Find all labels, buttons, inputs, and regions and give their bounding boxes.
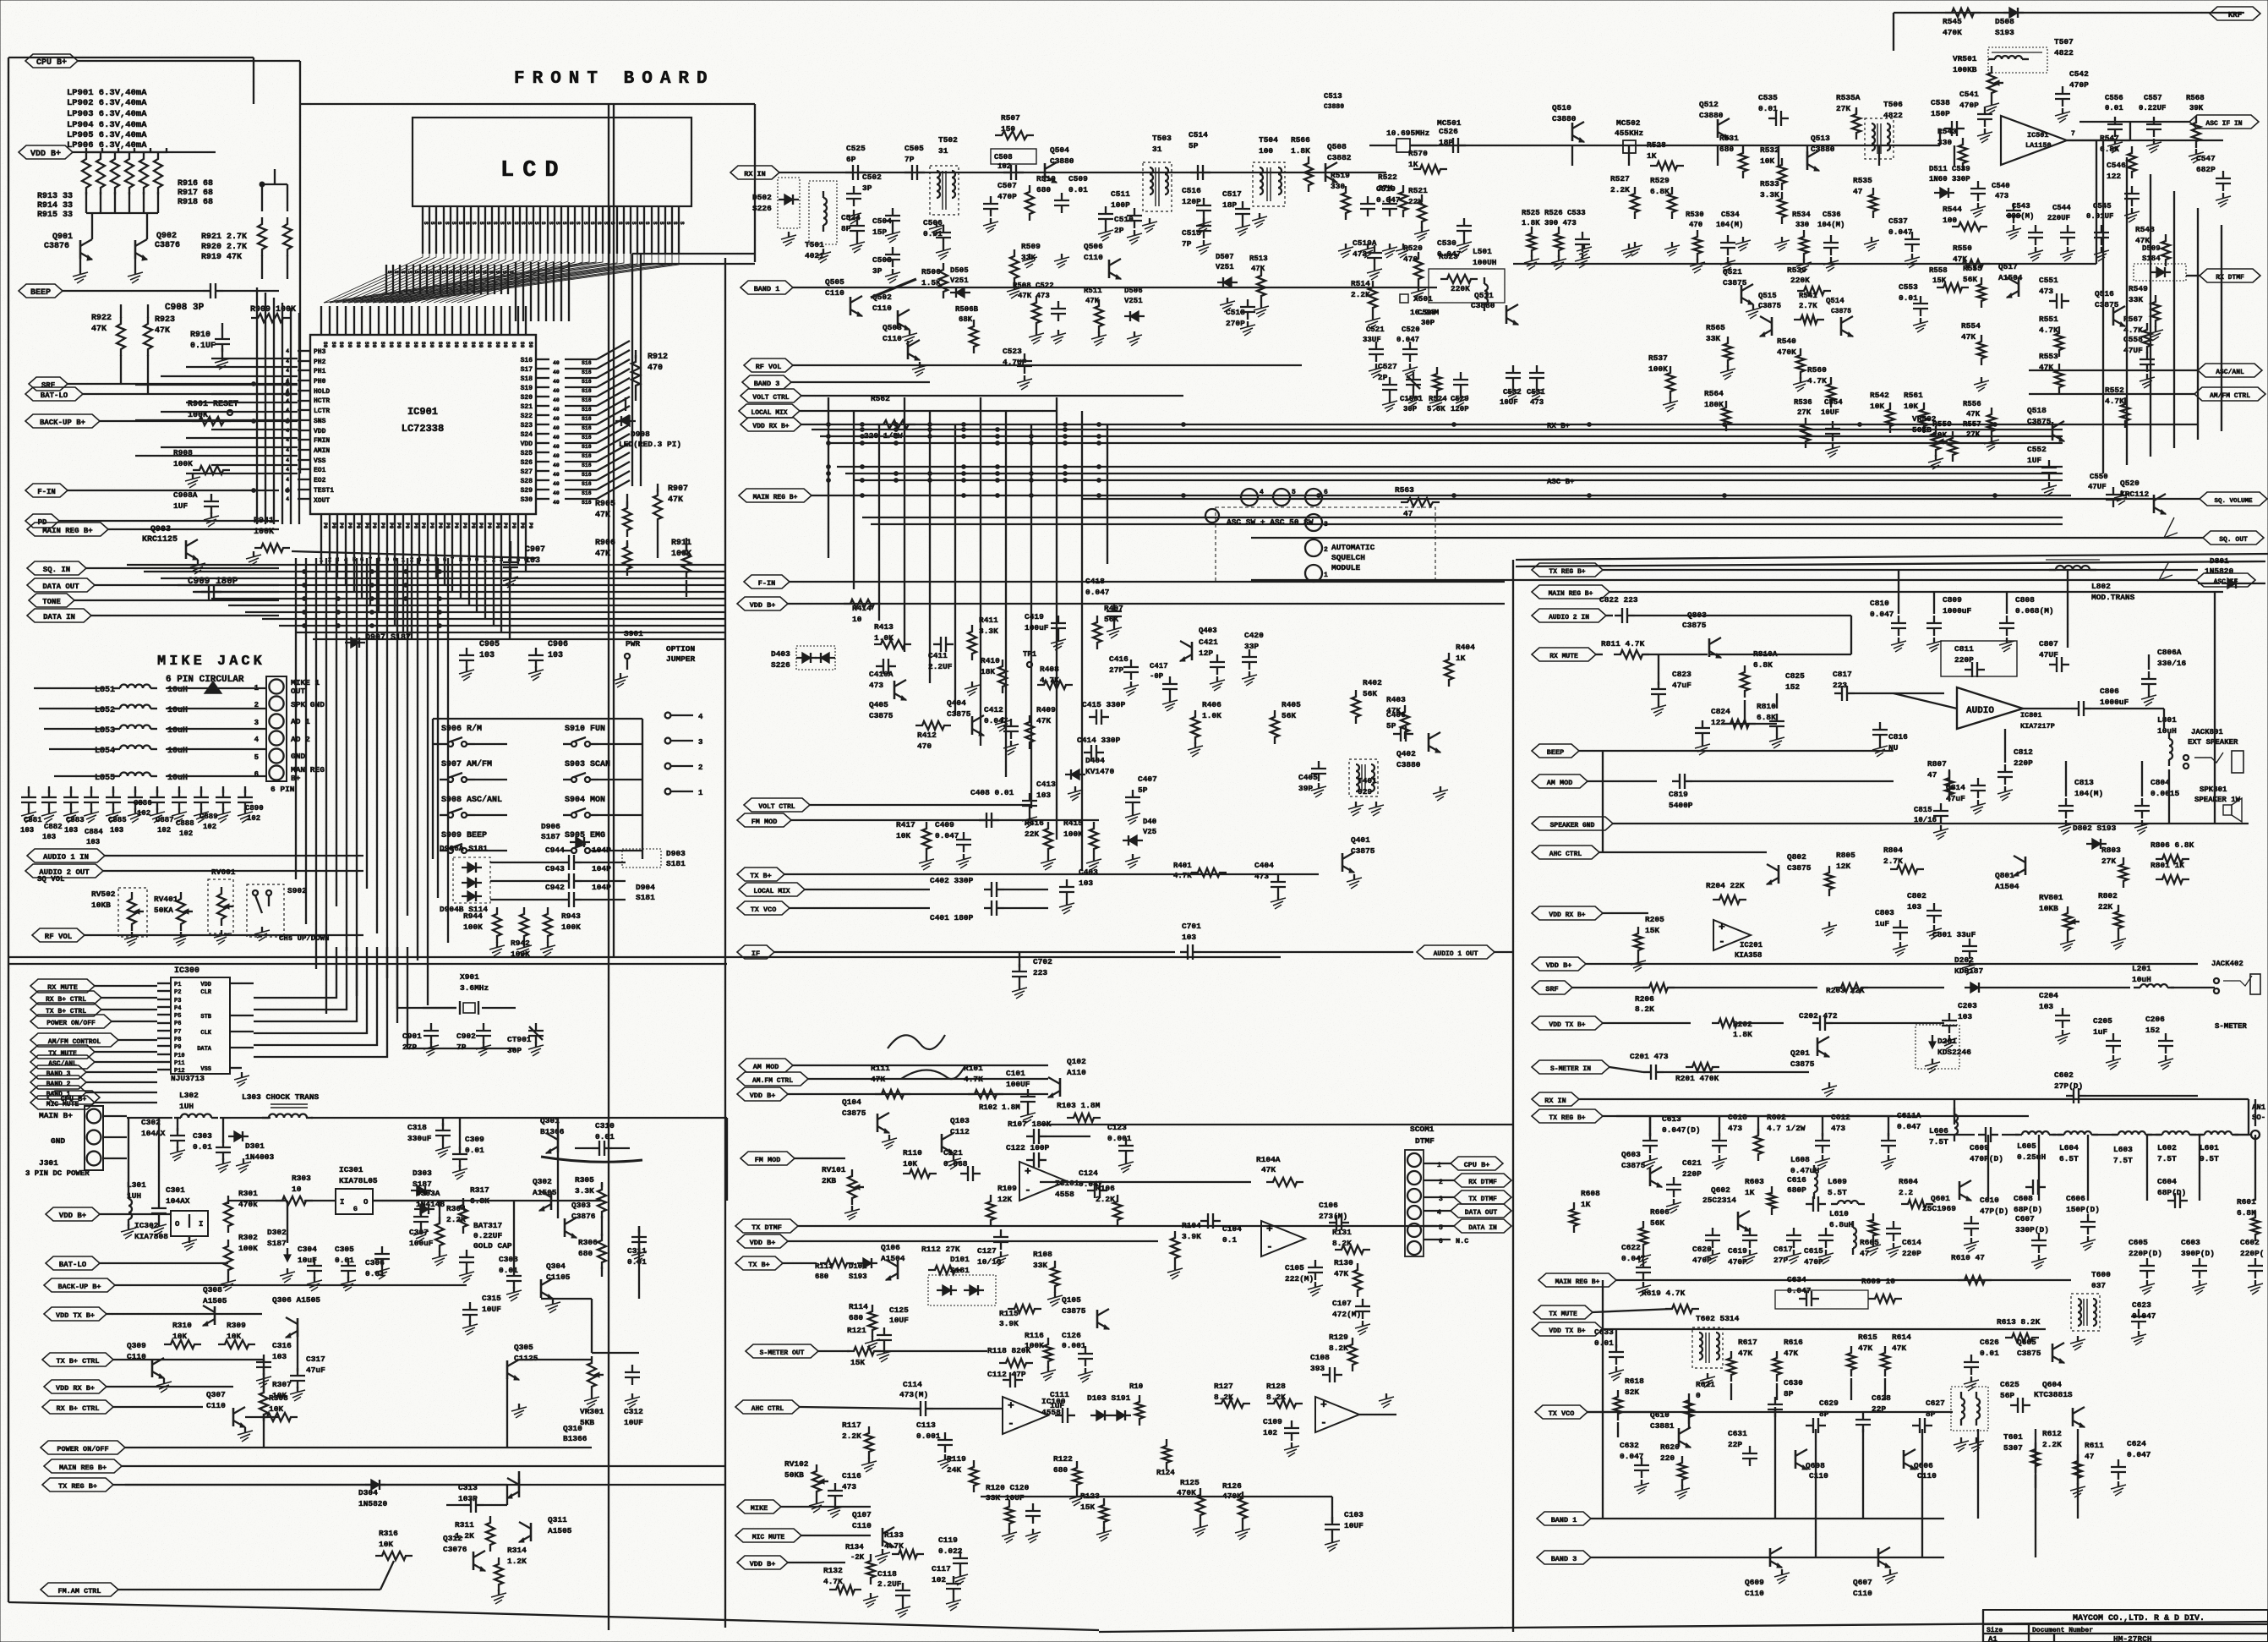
svg-text:103: 103 [1907,902,1921,911]
svg-text:0.01: 0.01 [1068,185,1088,194]
svg-text:0.047: 0.047 [1870,610,1894,619]
svg-text:C520: C520 [1402,326,1420,334]
wire front board right border [609,104,614,1630]
capacitor C521 C520 [1363,326,1420,378]
svg-text:R920 2.7K: R920 2.7K [201,243,247,252]
svg-text:RV401: RV401 [154,895,178,904]
svg-text:C901: C901 [402,1032,422,1041]
wire top frame line [300,61,755,473]
capacitor C550 [2088,473,2129,507]
node VDD B+ flag mid [737,597,1505,610]
svg-text:S: S [596,222,602,225]
svg-text:P11: P11 [174,1060,185,1067]
svg-text:2: 2 [1324,546,1328,554]
resistor R621 [1685,1380,1715,1424]
capacitor C123 [1107,1123,1134,1173]
op-amp IC102B [1315,1393,1396,1432]
diode D506 [1124,287,1145,346]
capacitor C306 [365,1246,390,1279]
capacitor C114 [899,1380,1003,1416]
svg-text:1UF: 1UF [173,501,188,511]
svg-text:P0: P0 [363,523,369,529]
node POWER ON/OFF flag power [41,1441,592,1454]
svg-text:HCTR: HCTR [314,397,330,405]
svg-text:D907 S187: D907 S187 [365,633,411,643]
diode D906 [541,822,590,847]
svg-text:R126: R126 [1222,1481,1242,1491]
transistor Q302 [533,1177,557,1211]
svg-text:R561: R561 [1904,391,1923,400]
svg-text:3.3K: 3.3K [1760,190,1779,200]
svg-text:R116: R116 [1025,1331,1044,1340]
svg-text:15K: 15K [1080,1502,1095,1512]
svg-text:P0: P0 [413,523,418,529]
svg-text:Q604: Q604 [2042,1380,2062,1389]
svg-text:C517: C517 [1222,189,1242,199]
svg-text:R545: R545 [1943,17,1962,26]
resistor R601 [2237,1197,2260,1241]
svg-text:Q510: Q510 [1552,103,1571,112]
capacitor C908 [165,283,279,313]
node RX MUTE flag rb [1532,648,1603,661]
svg-text:Q521: Q521 [1723,267,1742,276]
potentiometer VR501 [1953,54,2003,114]
svg-text:C906: C906 [548,640,568,649]
svg-text:OPTION: OPTION [666,644,696,654]
svg-text:S16: S16 [521,357,533,364]
svg-text:FMIN: FMIN [314,437,330,445]
node AUDIO 1 OUT flag [1417,945,1513,959]
resistor R559 [1932,419,1957,462]
svg-text:220P(D): 220P(D) [2129,1249,2162,1258]
svg-text:VR501: VR501 [1953,54,1977,63]
svg-text:KRC1125: KRC1125 [142,535,178,545]
capacitor C519 [1376,184,1401,205]
svg-text:102: 102 [932,1575,946,1585]
svg-text:C104: C104 [1222,1224,1242,1234]
svg-text:P0: P0 [437,523,443,529]
svg-text:S26: S26 [521,459,533,467]
wire top right rail [1894,13,2244,51]
potentiometer RV401 [154,892,193,946]
transistor Q304 [541,1262,571,1313]
switch S906 R/M [440,724,482,747]
svg-text:VDD B+: VDD B+ [750,601,776,610]
resistor R806 [2151,840,2194,863]
resistor R417 [896,820,934,870]
svg-text:Q104: Q104 [842,1097,861,1107]
svg-text:C806: C806 [2100,687,2119,696]
capacitor C421 [1199,638,1225,691]
svg-text:S0: S0 [338,342,344,348]
svg-text:C110: C110 [883,334,902,343]
svg-text:0: 0 [1696,1391,1701,1400]
svg-text:D201: D201 [1937,1037,1957,1046]
svg-text:S: S [492,222,498,225]
diode D906A [440,844,490,903]
svg-text:L603: L603 [2113,1145,2133,1154]
svg-text:104(M): 104(M) [1716,221,1743,229]
svg-text:S: S [436,222,442,225]
svg-text:C887: C887 [156,816,174,824]
svg-text:C3875: C3875 [1621,1161,1646,1170]
node DATA OUT flag scom [1424,1204,1511,1218]
svg-text:P0: P0 [486,523,492,529]
transistor Q106 [881,1243,905,1280]
svg-text:10uH: 10uH [2132,975,2151,984]
svg-text:40: 40 [553,472,560,478]
resistor R305 [575,1175,606,1226]
capacitor C603r [2181,1238,2215,1294]
resistor R942 [511,939,530,959]
svg-text:27K: 27K [1836,104,1850,113]
svg-text:C418: C418 [1085,577,1105,586]
svg-text:C631: C631 [1728,1429,1747,1438]
svg-text:L852: L852 [95,706,115,715]
svg-text:C609: C609 [1970,1143,1989,1152]
svg-text:BEEP: BEEP [30,288,51,298]
svg-text:C889: C889 [199,813,218,821]
svg-text:103: 103 [1182,933,1196,942]
wire mid-bottom rails [981,1125,1513,1497]
svg-text:S: S [434,271,440,274]
resistor R514 [1351,279,1380,329]
resistor R570 [1408,149,1447,173]
label IC901 top pin names [322,342,533,348]
capacitor C416 [1109,654,1139,696]
capacitor C310 [575,1121,630,1156]
resistor R402 [1352,678,1382,724]
capacitor C413 [1022,780,1056,828]
svg-text:VDD B+: VDD B+ [1546,961,1572,970]
capacitor C804 [2134,778,2180,835]
svg-text:R206: R206 [1635,994,1654,1004]
capacitor C317 [290,1355,325,1401]
svg-text:7P: 7P [1182,239,1192,249]
svg-text:P0: P0 [527,523,533,529]
wire option pins [665,713,703,797]
resistor R555 [1963,264,1986,308]
resistor R311 [455,1516,495,1552]
svg-text:103: 103 [548,651,563,660]
svg-text:RX IN: RX IN [1544,1097,1566,1105]
node BACK-UP B+ flag [25,414,298,428]
svg-text:2P: 2P [1114,226,1124,235]
svg-text:C3076: C3076 [443,1545,467,1554]
capacitor C543 C544 C545 [2007,202,2113,261]
svg-text:SNS: SNS [314,418,326,425]
svg-text:C117: C117 [932,1564,951,1574]
capacitor C419 [1025,612,1066,650]
svg-text:Q402: Q402 [1396,749,1416,758]
svg-text:RV102: RV102 [784,1459,809,1469]
svg-text:473: 473 [1530,398,1544,407]
svg-text:50KA: 50KA [154,906,173,915]
svg-text:R122: R122 [1053,1454,1073,1464]
resistor R566 [1291,135,1313,192]
svg-text:R614: R614 [1892,1333,1911,1342]
capacitor C819 [1669,774,1894,810]
svg-text:R303: R303 [292,1174,311,1183]
svg-text:6: 6 [254,770,259,779]
svg-text:C125: C125 [889,1305,909,1315]
node S-METER IN flag rb [1532,1060,1643,1074]
svg-text:47K: 47K [1085,297,1100,305]
svg-text:Q603: Q603 [1621,1150,1641,1159]
svg-text:104P: 104P [592,846,611,855]
svg-text:104AX: 104AX [141,1129,166,1138]
svg-text:HM-27RCH: HM-27RCH [2113,1634,2152,1642]
svg-text:R905: R905 [595,500,615,509]
node TX B+ CTRL flag power [42,1353,149,1366]
svg-text:S: S [400,271,406,274]
svg-text:R408: R408 [1040,665,1059,674]
svg-text:3.3K: 3.3K [575,1186,594,1196]
svg-text:R608: R608 [1581,1189,1600,1198]
capacitor C406 [1386,710,1413,742]
resistor R106 [1096,1184,1122,1227]
svg-text:P10: P10 [174,1053,185,1059]
wire middle column left border [724,258,726,1628]
svg-text:Q605: Q605 [2017,1338,2036,1347]
svg-text:103P: 103P [458,1494,478,1503]
svg-text:C618: C618 [1728,1113,1747,1122]
svg-text:C3876: C3876 [44,242,69,251]
capacitor C629 [1806,1398,1839,1433]
svg-text:S907 AM/FM: S907 AM/FM [441,759,492,769]
svg-text:C502: C502 [862,172,882,182]
svg-text:C111: C111 [1050,1390,1069,1399]
svg-text:S: S [527,222,533,225]
crystal X501 [1400,294,1440,317]
svg-text:KIA7808: KIA7808 [134,1232,168,1241]
resistor R203 [1826,983,1944,995]
resistor R542 [1870,391,1894,433]
svg-text:C127: C127 [977,1246,997,1256]
svg-text:I: I [340,1198,344,1207]
svg-text:S: S [386,271,392,274]
svg-text:KDS187: KDS187 [1954,966,1984,976]
svg-text:P5: P5 [174,1013,181,1020]
svg-text:S0: S0 [363,342,369,348]
wire IC901 bottom pin comb [292,514,536,558]
svg-text:1uF: 1uF [1875,919,1889,928]
svg-text:S: S [420,271,426,274]
svg-text:AUDIO 2 IN: AUDIO 2 IN [1549,614,1589,621]
svg-text:BAND 3: BAND 3 [754,380,780,388]
resistor R533 [1760,179,1790,251]
svg-text:LC72338: LC72338 [402,423,444,435]
svg-text:S16: S16 [582,360,592,366]
resistor R548 [2135,225,2170,266]
svg-text:S: S [575,222,581,225]
switch S905 EMG [563,831,605,853]
svg-text:R919 47K: R919 47K [201,253,242,262]
svg-text:FRONT BOARD: FRONT BOARD [514,69,715,89]
capacitor C401 [930,900,1048,922]
svg-text:Q304: Q304 [546,1262,566,1271]
svg-text:R603: R603 [1745,1177,1764,1186]
svg-text:R409: R409 [1036,705,1056,714]
svg-text:AMIN: AMIN [314,447,330,455]
svg-text:S: S [540,222,546,225]
svg-text:CPU B+: CPU B+ [1464,1161,1490,1169]
svg-text:R906: R906 [595,539,615,548]
inductor L605 [2015,1131,2056,1162]
svg-text:S: S [637,222,643,225]
svg-text:S16: S16 [582,425,592,431]
capacitor C815 [1914,803,1948,840]
svg-text:PH3: PH3 [314,348,326,356]
svg-text:7.5T: 7.5T [2157,1154,2177,1163]
capacitor C702 [1012,952,1052,999]
label 6 PIN CIRCULAR [166,675,244,693]
svg-text:R613 8.2K: R613 8.2K [1997,1317,2041,1327]
switch S901 PWR [613,629,643,687]
svg-text:S17: S17 [521,366,533,374]
svg-text:1.8K 390 473: 1.8K 390 473 [1522,219,1577,227]
svg-text:VDD TX B+: VDD TX B+ [1549,1327,1585,1335]
resistor R116 [1025,1331,1056,1381]
resistor R810 [1724,702,1776,728]
svg-text:Q606: Q606 [1914,1461,1933,1470]
svg-text:C550: C550 [2090,473,2108,481]
resistor R103 [1057,1101,1101,1122]
svg-text:C553: C553 [1899,282,1918,292]
capacitor C610r [1964,1196,2008,1252]
svg-text:C3875: C3875 [2017,1349,2041,1358]
svg-text:S181: S181 [666,859,686,868]
resistor R508 C522 [1013,282,1066,344]
capacitor C103 [1325,1497,1364,1552]
label RX B+ [1547,422,1570,430]
svg-text:68P(D): 68P(D) [2014,1205,2042,1214]
wire mid vertical risers [828,397,1107,871]
svg-text:10UF: 10UF [482,1305,501,1314]
svg-text:680: 680 [815,1273,828,1281]
svg-text:RX DTMF: RX DTMF [2216,274,2244,282]
svg-text:104P: 104P [592,883,611,892]
resistor R561 [1904,391,1928,433]
svg-text:3: 3 [698,738,702,747]
resistor R532 [1760,145,1786,190]
svg-text:C625: C625 [2000,1380,2019,1389]
svg-text:1: 1 [1437,1162,1441,1169]
label AN1 SO-239 [2235,1103,2266,1139]
transformer T504 [1252,135,1285,227]
resistor R204 [1706,881,1746,904]
label MC502 [1615,118,1643,258]
node MAIN REG B+ flag rb [1532,585,2223,599]
svg-text:S: S [582,222,588,225]
svg-text:S16: S16 [582,416,592,422]
svg-text:RF VOL: RF VOL [756,363,782,371]
svg-text:47K: 47K [1036,716,1051,725]
svg-text:6 PIN CIRCULAR: 6 PIN CIRCULAR [166,675,244,685]
node IF flag [737,945,1175,959]
label JACK801 pin names [271,678,325,794]
svg-text:P7: P7 [174,1029,181,1036]
svg-text:C112 47P: C112 47P [987,1370,1026,1379]
svg-text:XOUT: XOUT [314,497,330,505]
node BAND 1 flag [741,281,1437,294]
label OPTION JUMPER [666,644,696,664]
node MAIN REG B+ flag rb2 [1538,1273,2071,1287]
svg-text:+: + [1025,1165,1031,1178]
label IC901 right pin numbers [553,360,592,506]
svg-text:Q607: Q607 [1853,1578,1872,1587]
svg-text:C608: C608 [2014,1194,2033,1203]
resistor R531 [1719,134,1751,251]
resistor R543 [1937,127,1967,170]
svg-text:18P: 18P [1222,200,1237,210]
capacitor C806 [2071,687,2164,716]
svg-text:P0: P0 [462,523,467,529]
svg-text:C3880: C3880 [1471,301,1495,310]
svg-text:P0: P0 [338,523,344,529]
svg-text:4822: 4822 [2054,48,2074,57]
svg-text:R410: R410 [981,656,1000,665]
transistor Q608 [1795,1449,1828,1481]
wire right mid rail1 [1513,140,2096,264]
svg-text:AD 1: AD 1 [291,717,310,726]
resistor R805 [1822,851,1855,936]
svg-text:C806A: C806A [2157,648,2182,657]
svg-text:C535: C535 [1758,93,1778,102]
svg-text:R556: R556 [1963,400,1981,408]
svg-text:VR301: VR301 [580,1407,604,1416]
svg-text:3: 3 [254,719,259,727]
svg-text:KDS2246: KDS2246 [1937,1048,1971,1057]
capacitor C910 R910 [190,323,230,369]
svg-text:TX REG B+: TX REG B+ [58,1482,97,1491]
svg-text:R916 68: R916 68 [178,179,213,189]
svg-text:P4: P4 [174,1005,181,1012]
resistor R410 [981,656,1010,731]
svg-text:100P: 100P [1111,200,1130,210]
svg-text:0.01: 0.01 [499,1266,518,1275]
svg-text:C401 180P: C401 180P [930,913,974,922]
svg-text:680P: 680P [1787,1185,1806,1195]
svg-text:D202: D202 [1954,955,1974,965]
capacitor C507 [983,181,1017,233]
svg-text:C804: C804 [2151,778,2170,787]
resistor R810A [1741,649,1778,698]
svg-text:ASC IF IN: ASC IF IN [2205,120,2242,128]
svg-text:S0: S0 [470,342,476,348]
svg-text:R540: R540 [1777,337,1796,346]
svg-text:1: 1 [698,789,703,797]
svg-text:C205: C205 [2093,1016,2112,1026]
svg-text:152: 152 [2145,1026,2160,1035]
capacitor C547 [2196,154,2231,207]
svg-text:VOLT CTRL: VOLT CTRL [752,394,789,402]
svg-text:LCD: LCD [500,158,567,183]
svg-text:C3880: C3880 [1699,111,1724,120]
svg-text:R943: R943 [561,911,581,921]
svg-text:KIA78L05: KIA78L05 [339,1176,378,1185]
svg-text:C624: C624 [2127,1439,2146,1448]
node TX B+ CTRL flag [30,1003,157,1016]
svg-text:R108: R108 [1033,1250,1052,1259]
resistor R310 [164,1321,201,1349]
svg-text:455KHz: 455KHz [1615,129,1643,138]
transistor Q606 [1904,1449,1937,1481]
svg-text:3.6MHz: 3.6MHz [460,983,489,993]
svg-text:Q312: Q312 [443,1534,462,1543]
svg-text:56K: 56K [1650,1218,1664,1228]
svg-text:0.047: 0.047 [1621,1254,1646,1263]
